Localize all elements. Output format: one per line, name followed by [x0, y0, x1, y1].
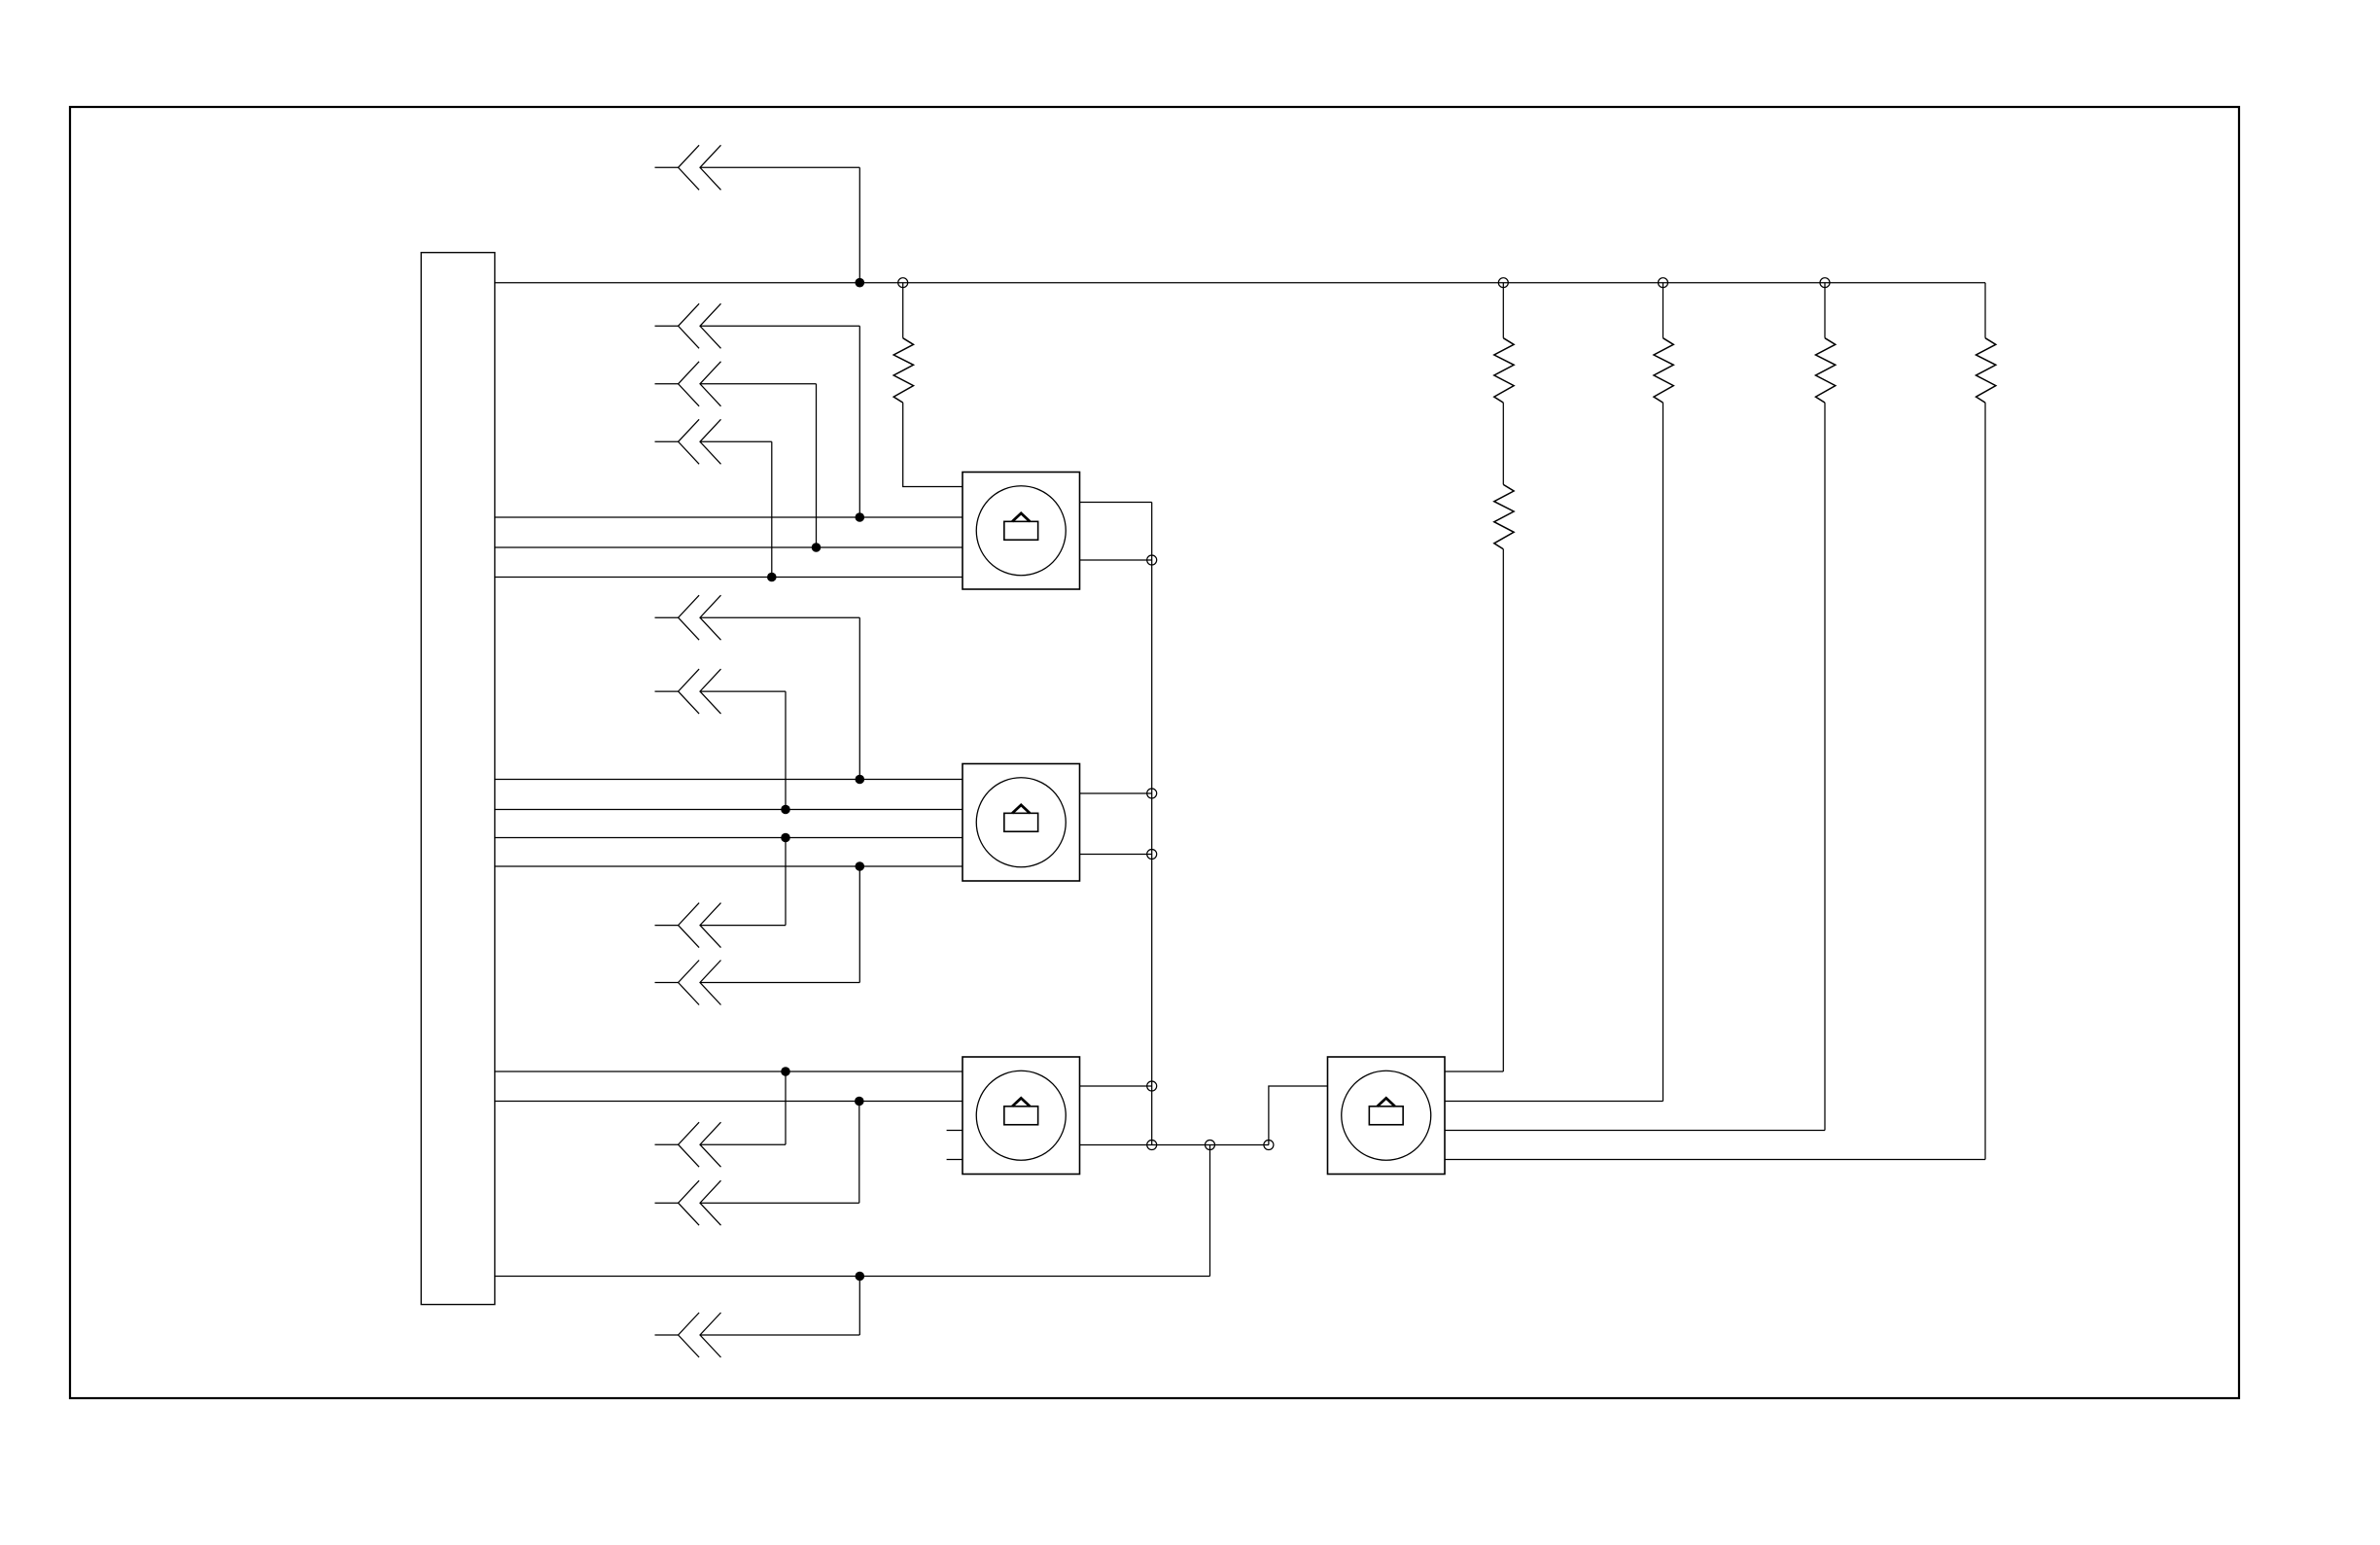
- wire L3 pin3 stub: [947, 1130, 962, 1132]
- lamp L1: [962, 473, 1080, 590]
- terminal T6: [1147, 789, 1157, 798]
- wire R2-R3 link: [1502, 403, 1504, 484]
- junction J7: [781, 805, 790, 815]
- wire T10 drop: [1209, 1145, 1211, 1277]
- wire J1 to L1 pin4: [495, 577, 962, 579]
- lamp L3: [962, 1057, 1080, 1175]
- wire L4 out 2: [1445, 1101, 1663, 1103]
- wire R3 to L4: [1502, 549, 1504, 1071]
- terminal T5: [1147, 555, 1157, 565]
- wire L4 out 3: [1445, 1130, 1825, 1132]
- terminal T2: [1498, 278, 1508, 288]
- wire J1 to L2 pin3: [495, 837, 962, 839]
- wire J1 to L3 pin1: [495, 1071, 962, 1072]
- wire from off-page connector W8: [700, 866, 859, 983]
- resistor R6: [1977, 338, 1996, 403]
- resistor R2: [1494, 338, 1514, 403]
- lamp L2: [962, 764, 1080, 882]
- wire L2 out A: [1080, 792, 1152, 794]
- resistor R1: [893, 338, 913, 403]
- terminal T3: [1659, 278, 1668, 288]
- lamp L4: [1328, 1057, 1446, 1175]
- terminal T8: [1147, 1081, 1157, 1091]
- wire L4 out 4: [1445, 1159, 1985, 1161]
- terminal T10: [1206, 1141, 1215, 1150]
- wire J1 to L1 pin3: [495, 546, 962, 548]
- wire from off-page connector W11: [700, 1277, 859, 1336]
- junction J8: [781, 833, 790, 843]
- border frame: [70, 107, 2239, 1398]
- wire terminal column: [1151, 503, 1153, 1145]
- junction J6: [856, 775, 865, 785]
- wire L3 out A: [1080, 1085, 1152, 1087]
- off-page connector W4: [655, 419, 721, 464]
- junction J10: [781, 1067, 790, 1076]
- off-page connector W3: [655, 362, 721, 406]
- junction J5: [767, 573, 777, 582]
- wire L1 out A: [1080, 502, 1152, 504]
- terminal T1: [898, 278, 908, 288]
- off-page connector W10: [655, 1180, 721, 1225]
- wire from off-page connector W5: [700, 617, 859, 779]
- off-page connector W1: [655, 145, 721, 190]
- terminal T4: [1820, 278, 1830, 288]
- junction J2: [856, 278, 865, 288]
- wire R5 to L4: [1824, 403, 1826, 1130]
- off-page connector W6: [655, 669, 721, 714]
- wire from off-page connector W2: [700, 326, 859, 517]
- resistor R5: [1816, 338, 1836, 403]
- wire L4 out 1: [1445, 1071, 1503, 1072]
- off-page connector W9: [655, 1122, 721, 1167]
- terminal T11: [1264, 1141, 1274, 1150]
- wire T11 jog to L4: [1269, 1086, 1328, 1145]
- wire R1 to L1 pin1: [903, 403, 962, 486]
- connector J1: [421, 253, 495, 1305]
- wire L3 out B: [1080, 1144, 1269, 1146]
- wire from off-page connector W4: [700, 441, 772, 577]
- off-page connector W2: [655, 303, 721, 348]
- wire L1 out B: [1080, 559, 1152, 561]
- terminal T9: [1147, 1141, 1157, 1150]
- wire from off-page connector W1: [700, 167, 859, 282]
- wire from off-page connector W7: [700, 838, 786, 926]
- wire from off-page connector W10: [700, 1102, 859, 1204]
- wire from off-page connector W3: [700, 384, 817, 547]
- wire L3 pin4 stub: [947, 1159, 962, 1161]
- junction J9: [856, 861, 865, 871]
- wire L2 out B: [1080, 854, 1152, 856]
- wire R6 top lead: [1984, 283, 1986, 338]
- wire J1 to L1 pin2: [495, 516, 962, 518]
- off-page connector W7: [655, 903, 721, 948]
- wire R4 to L4: [1662, 403, 1664, 1101]
- junction J3: [856, 512, 865, 522]
- wire J1 bottom to T10: [495, 1276, 1210, 1278]
- wire R5 top lead: [1824, 283, 1826, 338]
- terminal T7: [1147, 850, 1157, 860]
- wire J1 to L2 pin4: [495, 865, 962, 867]
- junction J4: [812, 543, 822, 552]
- wire J1 to L2 pin2: [495, 809, 962, 811]
- wire R2 top lead: [1502, 283, 1504, 338]
- off-page connector W8: [655, 961, 721, 1005]
- resistor R4: [1654, 338, 1673, 403]
- off-page connector W11: [655, 1313, 721, 1357]
- wire R4 top lead: [1662, 283, 1664, 338]
- junction J12: [856, 1272, 865, 1282]
- wire R1 top lead: [902, 283, 904, 338]
- wire bus B+: [495, 282, 1985, 284]
- wire J1 to L3 pin2: [495, 1101, 962, 1103]
- wire J1 to L2 pin1: [495, 779, 962, 781]
- wire R6 to L4: [1984, 403, 1986, 1159]
- wire from off-page connector W9: [700, 1071, 786, 1144]
- resistor R3: [1494, 484, 1514, 548]
- junction J11: [855, 1097, 864, 1106]
- off-page connector W5: [655, 595, 721, 640]
- wire from off-page connector W6: [700, 691, 786, 809]
